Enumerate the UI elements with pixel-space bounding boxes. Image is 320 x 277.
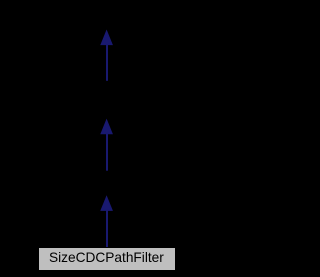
- wire: inheritance arrow 3 shaft (bottom): [106, 210, 108, 248]
- wire: inheritance arrow 2 shaft (middle): [106, 133, 108, 171]
- wire: inheritance arrow 1 shaft (top): [106, 44, 108, 81]
- class box SizeCDCPathFilter: [38, 247, 176, 271]
- node: inheritance arrow 1 head (top): [101, 31, 112, 45]
- node: inheritance arrow 2 head (middle): [101, 120, 112, 134]
- inheritance arrows graph: [0, 0, 213, 277]
- node: inheritance arrow 3 head (bottom): [101, 197, 112, 211]
